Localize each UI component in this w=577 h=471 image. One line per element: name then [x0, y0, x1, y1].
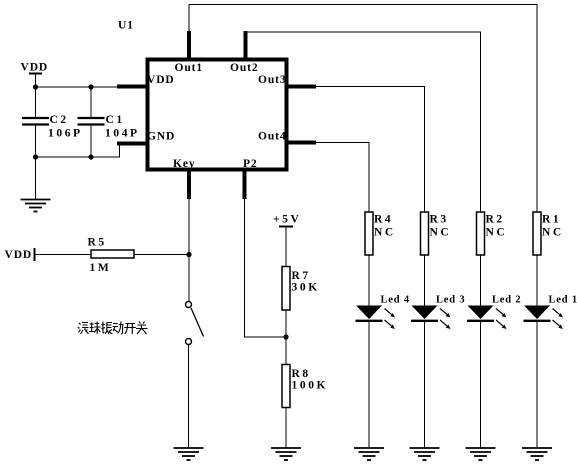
wire net Out1 to R1 — [189, 5, 537, 213]
LED Led 4 — [356, 295, 410, 330]
power VDD port (top left) — [21, 62, 49, 88]
junction dot GND/C1 — [88, 154, 93, 159]
svg-text:30K: 30K — [292, 282, 320, 294]
pin Out1 — [175, 31, 204, 74]
ground (below C2) — [21, 200, 51, 212]
ground (LED column 3) — [410, 448, 440, 460]
LED Led 3 — [411, 295, 465, 330]
resistor R8 — [282, 365, 328, 408]
wire C2 to ground — [35, 157, 37, 200]
svg-text:NC: NC — [374, 227, 396, 239]
svg-text:R8: R8 — [292, 368, 311, 380]
wire net Out4 to R4 — [316, 143, 369, 213]
junction dot P2/R7/R8 — [283, 334, 288, 339]
resistor R7 — [282, 267, 320, 311]
wire Led 1 to ground — [536, 321, 538, 448]
wire R7 to R8 — [285, 310, 287, 365]
svg-text:100K: 100K — [292, 380, 329, 392]
ground (LED column 1) — [522, 448, 552, 460]
svg-text:R5: R5 — [88, 237, 107, 249]
wire Led 2 to ground — [480, 321, 482, 448]
wire Key net vertical — [188, 199, 190, 302]
capacitor C2 — [22, 87, 83, 157]
resistor R5 — [88, 237, 135, 275]
junction dot R5/Key — [186, 252, 191, 257]
svg-text:NC: NC — [486, 227, 508, 239]
capacitor C1 — [78, 87, 140, 157]
wire net Out3 to R3 — [316, 87, 425, 213]
switch S1 (vibration switch) — [186, 302, 204, 345]
svg-text:1M: 1M — [90, 262, 112, 274]
power +5V port — [273, 214, 301, 227]
wire R1 to Led 1 — [536, 255, 538, 306]
pin VDD — [117, 74, 175, 87]
junction dot VDD/C2 — [33, 84, 38, 89]
pin Out4 — [258, 131, 316, 143]
svg-text:Out2: Out2 — [230, 62, 259, 74]
ground (R8) — [271, 448, 301, 460]
pin Out2 — [230, 31, 259, 74]
svg-text:P2: P2 — [243, 158, 258, 170]
svg-text:R3: R3 — [430, 214, 449, 226]
IC U1 body — [148, 60, 287, 170]
svg-text:R1: R1 — [542, 214, 561, 226]
ground (LED column 4) — [354, 448, 384, 460]
svg-text:NC: NC — [430, 227, 452, 239]
wire Led 3 to ground — [424, 321, 426, 448]
resistor R2 (NC) — [477, 212, 508, 255]
wire net P2 to R7/R8 junction — [245, 199, 287, 337]
svg-text:Led 2: Led 2 — [492, 295, 521, 306]
svg-text:Out3: Out3 — [258, 74, 287, 86]
svg-text:Led 4: Led 4 — [381, 295, 410, 306]
wire Led 4 to ground — [368, 321, 370, 448]
pin P2 — [243, 158, 258, 199]
svg-text:VDD: VDD — [147, 74, 175, 86]
svg-text:Out1: Out1 — [175, 62, 204, 74]
wire net Out2 to R2 — [246, 32, 481, 212]
svg-text:VDD: VDD — [21, 62, 49, 74]
wire R8 to ground — [285, 408, 287, 449]
wire R4 to Led 4 — [368, 255, 370, 306]
svg-text:U1: U1 — [118, 20, 134, 32]
wire R5 to Key net — [134, 254, 189, 256]
svg-text:Key: Key — [173, 158, 196, 170]
wire R3 to Led 3 — [424, 255, 426, 306]
resistor R3 (NC) — [421, 212, 452, 255]
resistor R1 (NC) — [533, 212, 564, 255]
junction dot VDD/C1 — [88, 84, 93, 89]
wire switch to ground — [188, 345, 190, 449]
svg-text:NC: NC — [542, 227, 564, 239]
resistor R4 (NC) — [365, 212, 396, 255]
wire GND rail — [36, 144, 120, 158]
svg-text:104P: 104P — [105, 128, 140, 140]
pin GND — [117, 131, 175, 144]
svg-text:VDD: VDD — [5, 249, 33, 261]
ground (LED column 2) — [466, 448, 496, 460]
wire +5V to R7 — [285, 227, 287, 267]
svg-text:Led 1: Led 1 — [549, 295, 577, 306]
junction dot GND/C2 — [33, 154, 38, 159]
svg-text:C2: C2 — [50, 114, 69, 126]
wire VDD rail — [36, 86, 118, 88]
LED Led 1 — [524, 295, 577, 330]
wire R2 to Led 2 — [480, 255, 482, 306]
wire VDD to R5 — [35, 254, 92, 256]
svg-text:Led 3: Led 3 — [436, 295, 465, 306]
svg-text:R4: R4 — [374, 214, 393, 226]
svg-text:106P: 106P — [48, 128, 83, 140]
svg-text:+5V: +5V — [273, 214, 301, 226]
svg-text:C1: C1 — [106, 114, 125, 126]
svg-text:R7: R7 — [292, 270, 311, 282]
svg-text:R2: R2 — [486, 214, 505, 226]
svg-text:GND: GND — [147, 131, 175, 143]
LED Led 2 — [467, 295, 521, 330]
pin Out3 — [258, 74, 316, 87]
pin Key — [173, 158, 196, 199]
label "滚珠振动开关" (ball vibration switch), drawn as vector strokes — [78, 322, 148, 335]
svg-text:Out4: Out4 — [258, 131, 287, 143]
ground (switch) — [174, 448, 204, 460]
power VDD port (at R5) — [5, 248, 35, 261]
